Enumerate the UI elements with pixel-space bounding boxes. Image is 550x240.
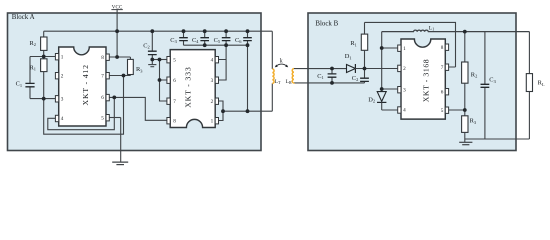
svg-text:6: 6 [441, 89, 444, 95]
capacitor C2 [143, 42, 157, 54]
ground under C2 [148, 60, 156, 67]
svg-text:2: 2 [403, 66, 406, 72]
wire: R1 top rail to pin 7 [365, 22, 456, 67]
wire: transformer secondary leads [294, 69, 365, 83]
capacitor C4 [192, 31, 209, 45]
junction rail / pin1 [380, 46, 384, 50]
pin stubs U3 right [445, 44, 448, 50]
wire: C2 node to XKT-333 pin 5 [152, 59, 167, 61]
svg-text:4: 4 [61, 116, 64, 122]
junction rail / pin6 wire [158, 78, 162, 82]
svg-text:7: 7 [101, 73, 104, 79]
wire: bus to XKT-333 pins 4 and 3 [218, 45, 226, 80]
junction C6 / bus [246, 43, 250, 47]
diode D2 [368, 89, 386, 110]
wire: bottom return bus [465, 138, 530, 140]
svg-text:7: 7 [441, 65, 444, 71]
svg-text:4: 4 [403, 108, 406, 114]
svg-text:5: 5 [101, 115, 104, 121]
resistor R3 [128, 59, 144, 74]
Block B box [308, 13, 516, 151]
VCC rail wire down to pin 8 wire [116, 9, 118, 57]
pin stubs U1 right [106, 54, 109, 60]
ground symbol Block A bottom [112, 162, 128, 165]
power VCC symbol [111, 6, 123, 11]
svg-text:L1: L1 [429, 25, 434, 31]
wire: XKT-333 pin 2 and pin 1 to bottom node [218, 101, 223, 121]
junction divider / pin5 [463, 108, 467, 112]
junction C2 bottom / pin5 wire [150, 58, 154, 62]
wire: inner loop pin 4 to pin 6 [48, 97, 115, 129]
junction VCC / top rail [115, 29, 119, 33]
junction rail / pin3 [380, 87, 384, 91]
junction VCC rail / pin8 wire [115, 55, 119, 59]
pin stubs U3 left [398, 44, 449, 113]
wire: pin 8 to R3 top [109, 57, 130, 59]
junction C4 / bus [203, 43, 207, 47]
wire: pin 5 to divider node [449, 109, 465, 111]
wire: R1 bottom / C1 bottom to pin 3 [30, 98, 56, 100]
svg-text:8: 8 [441, 45, 444, 51]
resistor R1 (Block B) [350, 22, 367, 68]
ground symbol Block B [459, 142, 472, 144]
wire: pin 1 node (R2 bottom / R1 top / C1 top) [30, 56, 56, 58]
junction rail / pin5 wire [158, 58, 162, 62]
inductor L1 (Block B) [382, 25, 530, 31]
svg-text:Block B: Block B [315, 20, 338, 27]
capacitor C3 (Block B) [481, 32, 497, 139]
svg-text:8: 8 [173, 118, 176, 124]
junction R1/R2/pin1 [42, 55, 46, 59]
svg-text:3: 3 [211, 78, 214, 84]
svg-text:5: 5 [441, 108, 444, 114]
junction D1/R1/C2 [363, 67, 367, 71]
wire: D1 cathode to pin 2 [355, 68, 397, 70]
junction C6 / top rail [246, 29, 250, 33]
junction C3 / top rail [182, 29, 186, 33]
wire: top rail of Block A (R2 top to transformer) [44, 30, 273, 32]
wire: transformer primary leads [271, 31, 273, 111]
wire: bottom node to transformer primary [223, 110, 272, 112]
capacitor C5 [214, 31, 231, 45]
capacitor C6 [235, 31, 252, 45]
coupling k label and arrow [275, 59, 288, 68]
resistor R1 [30, 57, 48, 99]
svg-text:LR: LR [286, 79, 292, 85]
junction R1 bottom/C1/pin3 [42, 97, 46, 101]
pin stubs U2 left [167, 57, 219, 124]
wire: pin 5 to ground rail [109, 117, 121, 119]
resistor R2 [30, 31, 48, 56]
op IC U1 XKT-412 [55, 47, 109, 126]
junction pins 1-2 / bottom wire [221, 109, 225, 113]
capacitor C2 (Block B) [352, 69, 369, 83]
capacitor C1 [16, 57, 35, 99]
wire: bus down to bottom node [247, 45, 249, 111]
Block A box [8, 13, 262, 151]
junction C4 / top rail [203, 29, 207, 33]
diode D1 [345, 53, 356, 73]
wire: pin 6 to XKT-333 pin 8 [109, 97, 167, 120]
svg-text:Block A: Block A [12, 14, 35, 21]
wire: D2 cathode to pin 4 [382, 109, 398, 111]
pin stubs U2 right [215, 57, 218, 63]
resistor R3 (Block B) [462, 116, 477, 142]
svg-text:6: 6 [101, 95, 104, 101]
svg-text:1: 1 [211, 118, 214, 124]
op IC U3 XKT-3168 [398, 39, 449, 119]
op IC U2 XKT-333 [167, 50, 219, 128]
capacitor C3 [170, 31, 188, 45]
svg-text:7: 7 [173, 99, 176, 105]
svg-text:LT: LT [275, 79, 281, 85]
svg-text:XKT - 3168: XKT - 3168 [422, 59, 431, 102]
junction C2 / top rail [150, 29, 154, 33]
wire: caps bus under C3-C6 [184, 44, 248, 46]
svg-text:8: 8 [101, 55, 104, 61]
junction pin6 wire / loop [112, 96, 116, 100]
svg-text:6: 6 [173, 78, 176, 84]
wire: pin 7 to R3 bottom [109, 75, 130, 76]
svg-text:4: 4 [211, 57, 214, 63]
wire: rail to XKT-333 pins 6 and 7 [160, 60, 168, 102]
inductor LT (transformer primary) [272, 69, 281, 85]
pin numbers U1 [61, 54, 105, 122]
svg-text:1: 1 [61, 54, 64, 60]
pin numbers U2 [173, 57, 213, 124]
ground stem wire Block A [120, 118, 122, 162]
pin stubs U1 left [55, 54, 109, 122]
junction pin7 wire / loop [122, 74, 126, 78]
junction C7 bottom [330, 81, 334, 85]
svg-text:XKT - 333: XKT - 333 [184, 66, 193, 107]
svg-text:XKT - 412: XKT - 412 [81, 64, 90, 105]
svg-text:2: 2 [211, 99, 214, 105]
junction bus drop / bottom wire [246, 109, 250, 113]
wire: pin1/pin3 rail [382, 32, 398, 89]
junction C7 top [330, 67, 334, 71]
svg-text:RL: RL [538, 80, 545, 87]
svg-text:5: 5 [173, 57, 176, 63]
junction C5 / bus [224, 43, 228, 47]
capacitor C1 (Block B) [317, 69, 336, 83]
inductor LR (transformer secondary) [286, 69, 294, 86]
svg-text:2: 2 [61, 73, 64, 79]
svg-text:1: 1 [403, 46, 406, 52]
resistor R2 (Block B) [462, 32, 478, 116]
pin numbers U3 [403, 45, 444, 114]
svg-text:3: 3 [403, 87, 406, 93]
wire: C2 top stem [151, 31, 153, 51]
wire: outer loop pin 3 node to pin 7 node [44, 76, 124, 135]
svg-text:3: 3 [61, 96, 64, 102]
junction R2 top / coil wire [463, 30, 467, 34]
resistor RL [526, 32, 545, 139]
junction C5 / top rail [224, 29, 228, 33]
wire: C2 bottom to pin5 node [151, 55, 153, 60]
